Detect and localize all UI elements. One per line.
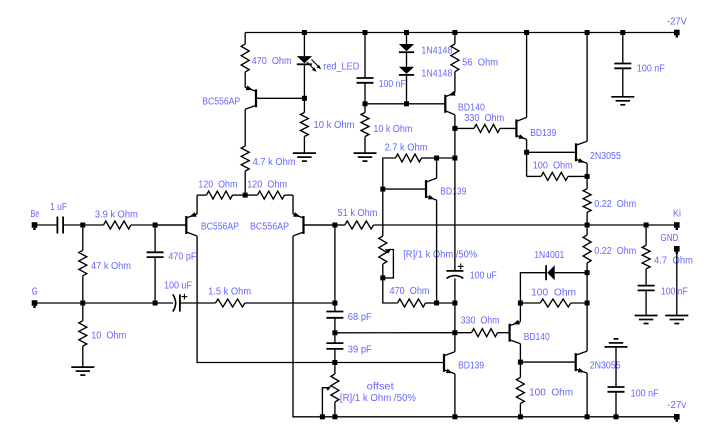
wire mid node to 39pF [334,333,336,343]
resistor R 0.22 Ohm (bottom) label [594,246,636,257]
junction (646,224) [644,223,649,228]
resistor R 100 Ohm (bottom) [516,378,524,404]
junction (454,332) [452,330,457,335]
wire node to 51k [335,224,345,226]
ground below 10k second [354,153,377,161]
junction (520,416) [518,414,523,419]
wire Q9c down to 100-4 [519,362,521,377]
wire 10 Ohm to ground [82,346,84,367]
plus sign of bias 100 uF [458,264,464,270]
wire 120L corner [197,194,206,196]
svg-text:BD139: BD139 [530,128,556,139]
junction (436,158) [434,156,439,161]
wire diode branch top [406,33,408,45]
resistor R 470 Ohm (bias) [398,299,426,307]
transistor Q9 BD140 (bottom) label [524,332,550,343]
resistor R 470 Ohm [241,44,249,72]
wire Q7 collector up [436,158,438,178]
wire LED branch top [303,33,305,57]
resistor R 51 k Ohm label [338,208,378,219]
junction (454,302) [452,301,457,306]
transistor Q2 BC556AP (diff left) label [201,222,239,233]
svg-text:56 Ohm: 56 Ohm [462,58,498,69]
transistor Q10 2N3055 (bottom) label [590,360,621,371]
ground below GND terminal [665,316,688,324]
wire Q8 collector up [454,333,456,352]
LED light arrows [307,59,321,72]
terminal pad -27V [674,30,680,38]
resistor R 10 Ohm [79,321,87,346]
resistor R 10 k Ohm (second) label [373,124,412,135]
resistor R 100 Ohm (bottom) label [529,387,573,398]
transistor Q9 BD140 (bottom) [510,320,521,344]
wire Q6 emitter down [586,163,588,176]
ground below 10 Ohm [71,367,94,375]
label 100 uF bias [470,271,497,282]
ground above 100nF bottom right (inverted) [605,339,628,347]
resistor R 0.22 Ohm (top) [583,189,591,213]
svg-text:2.7 k Ohm: 2.7 k Ohm [385,143,428,154]
wire 3.9k to node2 [131,224,155,226]
svg-text:100 nF: 100 nF [661,286,688,297]
wire Q2 collector down [197,236,335,363]
svg-text:G: G [32,286,38,297]
wire 470-2 to node [426,302,437,304]
wire Q7 emitter down [436,200,438,303]
wire 68pF to mid node [334,318,336,333]
capacitor C 100 nF (zobel) [638,286,655,291]
capacitor C 470 pF [147,252,164,257]
junction (364,103) [363,101,368,106]
resistor R 10 k Ohm (second) [361,113,369,137]
transistor Q3 BC556AP (diff right) label [250,222,289,233]
transistor Q1 BC556AP label [202,96,240,107]
svg-text:39 pF: 39 pF [348,344,372,355]
label -27v bottom [667,400,686,411]
junction (155,302) [153,301,158,306]
wire 56 Ohm top [454,33,456,45]
wire Q6 collector up [586,33,588,142]
resistor R 330 Ohm (top) label [464,113,504,124]
junction (334,224) [332,223,337,228]
junction (526,152) [524,150,529,155]
junction (82,302) [80,301,85,306]
junction (334,362) [332,360,337,365]
resistor R 100 Ohm (driver top) [541,172,568,180]
wire 100-3 left [520,302,540,304]
transistor Q2 BC556AP (diff left) [155,212,197,236]
diode D2 1N4148 label [421,68,452,79]
wire 454 node down [454,128,456,158]
resistor R 100 Ohm (driver top) label [533,161,573,172]
wire Q8 emitter down [454,374,456,417]
diode D3 1N4001 label [534,250,564,261]
junction (587,272) [585,270,590,275]
svg-text:BC556AP: BC556AP [202,96,240,107]
wire diode node to 100-3 node [586,273,588,303]
resistor R 100 Ohm (right mid) label [531,288,576,299]
wire 4.7k to tail node [244,171,246,195]
resistor R 0.22 Ohm (bottom) [583,235,591,263]
wire diode row right [555,272,587,274]
wire 1uF to node [63,224,83,226]
wire G pad to node [35,302,83,304]
wire between diodes [406,52,408,67]
wire 100nF-4 to bottom rail [615,392,617,417]
potentiometer bias [R]/1 k Ohm /50% [379,236,387,264]
svg-text:1N4001: 1N4001 [534,250,564,261]
resistor R 51 k Ohm [345,221,374,229]
junction (436,302) [434,301,439,306]
svg-text:Be: Be [30,209,39,220]
junction (82,224) [80,223,85,228]
transistor Q5 BD139 (top) [516,117,526,139]
svg-text:BD139: BD139 [458,361,484,372]
wire 51k to output rail [374,224,588,226]
svg-text:100 Ohm: 100 Ohm [533,161,573,172]
wire Q5 collector up [526,33,528,118]
wire 100uF to 1.5k [180,302,216,304]
wire Q5e to Q6 base [527,151,576,153]
wire 39pF to 361 line [334,349,336,363]
transistor Q7 BD139 (VAS top) label [440,187,466,198]
label 100 uF input [164,280,192,291]
wire bottom -27v rail [322,416,676,418]
junction (382,277) [380,275,385,280]
wire 470pF top [154,225,156,252]
capacitor C 1 uF label [50,202,67,213]
wire rail2 [365,103,445,105]
svg-text:10 Ohm: 10 Ohm [91,330,126,341]
junction (587,302) [585,301,590,306]
junction (622,32) [620,30,625,35]
svg-text:-27v: -27v [667,400,686,411]
junction (155,224) [153,223,158,228]
resistor R 10 k Ohm (left) label [314,120,355,131]
resistor R 56 Ohm label [462,58,498,69]
junction (454,158) [452,156,457,161]
label Be [30,209,39,220]
label G [32,286,38,297]
wire 100nF-3 to ground [645,290,647,315]
capacitor C 68 pF label [348,312,372,323]
wire 1.5k to feedback node [245,302,335,304]
wire fb base line crossing [382,189,384,236]
wire Q3 collector down [293,236,322,417]
svg-text:1N4148: 1N4148 [421,46,452,57]
junction (520,362) [518,360,523,365]
wire diode row left [520,273,546,303]
svg-text:470 Ohm: 470 Ohm [390,286,430,297]
label -27V top [667,17,687,28]
svg-text:120 Ohm: 120 Ohm [198,179,237,190]
wire 454 down to 330-2 node [454,303,456,333]
resistor R 2.7 k Ohm [396,154,422,162]
capacitor C 100 nF (top right) label [637,64,665,75]
svg-text:51 k Ohm: 51 k Ohm [338,208,378,219]
wire 100nF-1 top [364,33,366,79]
wire 100-3 right [571,302,587,304]
junction (406,103) [404,101,409,106]
ground below 10k left [293,153,316,161]
svg-text:68 pF: 68 pF [348,312,372,323]
resistor R 470 Ohm (bias) label [390,286,430,297]
wire 0.22-2 to diode node [586,263,588,273]
wire 47k to G line [82,276,84,303]
junction (526,32) [524,30,529,35]
wire Q5 emitter down [526,139,528,152]
wire node to 0.22-1 [586,176,588,188]
resistor R 0.22 Ohm (top) label [594,199,636,210]
svg-text:330 Ohm: 330 Ohm [461,316,500,327]
svg-text:330 Ohm: 330 Ohm [464,113,504,124]
junction (587,224) [585,223,590,228]
LED red_LED label [323,62,359,73]
wire zobel top [645,225,647,245]
resistor R 120 Ohm (left) label [198,179,237,190]
resistor R 4.7 Ohm (zobel) label [654,256,693,267]
wire 120R corner [285,194,294,196]
ground below 100nF top right [611,97,634,105]
wire G node to 470pF node [83,302,155,304]
wire out rail to 0.22-2 [586,225,588,235]
svg-text:10 k Ohm: 10 k Ohm [373,124,412,135]
wire 100nF-1 bottom [364,83,366,104]
wire 2.7k corner [383,158,396,189]
resistor R 56 Ohm [451,44,459,72]
junction (454,128) [452,126,457,131]
wire GND pad to ground [676,252,678,316]
wire node to 100uF node [437,302,455,304]
svg-text:100 Ohm: 100 Ohm [531,288,576,299]
wire 100nF-2 top [622,33,624,64]
wire node to 10k [303,98,305,112]
svg-text:[R]/1 k Ohm /50%: [R]/1 k Ohm /50% [403,250,477,261]
svg-text:0.22 Ohm: 0.22 Ohm [594,199,636,210]
capacitor C 100 nF (left) [357,78,374,83]
ground below zobel [635,316,658,324]
svg-text:BD140: BD140 [524,332,550,343]
capacitor C 100 uF (bias, polarized) [446,271,463,279]
junction (245,195) [243,193,248,198]
wire Q9 collector down [519,344,521,362]
wire 330-1 to Q5 base [500,127,516,129]
svg-text:1N4148: 1N4148 [421,68,452,79]
svg-text:100 uF: 100 uF [164,280,192,291]
wire fb node down to 68p [334,225,336,303]
svg-text:100 nF: 100 nF [637,64,665,75]
diode D3 1N4001 [546,265,555,280]
resistor R 47 k Ohm label [91,261,131,272]
wire Q2 emitter up [196,195,198,214]
transistor Q6 2N3055 (top) [576,141,587,163]
wire 454 to 100uF2 [454,158,456,271]
bias pot wiper [383,249,394,278]
svg-text:100 nF: 100 nF [379,79,406,90]
wire Q1 collector to 4.7k [244,109,246,146]
transistor Q7 BD139 (VAS top) [383,178,437,200]
wire Q10 collector up [586,303,588,351]
svg-text:100 uF: 100 uF [470,271,497,282]
wire output rail right [587,224,677,226]
wire 157 node link [437,157,455,159]
wire 10k to ground [303,137,305,154]
wire 10k-2 to ground [364,137,366,154]
wire Be to 1uF [35,224,58,226]
resistor R 4.7 k Ohm label [253,157,296,168]
label GND [660,233,678,244]
wire offset pot top [334,363,336,375]
svg-text:-27V: -27V [667,17,687,28]
wire 361 line to Q8 base [335,362,444,364]
svg-text:100 nF: 100 nF [631,389,659,400]
transistor Q6 2N3055 (top) label [590,151,621,162]
resistor R 3.9 k Ohm [104,221,131,229]
wire 0.22-1 to out rail [586,212,588,225]
junction (587,32) [585,30,590,35]
potentiometer offset [R]/1 k Ohm /50% [331,374,339,402]
wire node to 3.9k [83,224,104,226]
wire 332 node to 330-2 [455,332,472,334]
junction (454,416) [452,414,457,419]
resistor R 330 Ohm (bottom) label [461,316,500,327]
transistor Q3 BC556AP (diff right) [293,212,335,236]
terminal pad GND [674,246,680,254]
svg-text:3.9 k Ohm: 3.9 k Ohm [95,209,138,220]
resistor R 47 k Ohm [79,250,87,275]
capacitor C 1 uF [57,217,63,234]
junction (520,302) [518,301,523,306]
wire bias pot node down [383,278,398,303]
wire 4.7 to 100nF-3 [645,269,647,286]
capacitor C 100 nF (bottom right) label [631,389,659,400]
capacitor C 100 nF (left) label [379,79,406,90]
svg-text:4.7 Ohm: 4.7 Ohm [654,256,693,267]
junction (334,332) [332,330,337,335]
wire Q3 emitter up [292,195,294,214]
resistor R 4.7 k Ohm [241,146,249,171]
LED red_LED [297,56,312,64]
wire 330-2 to Q9 base [498,332,510,334]
svg-text:470 pF: 470 pF [168,251,196,262]
junction (616,416) [614,414,619,419]
junction (334,302) [332,301,337,306]
resistor R 3.9 k Ohm label [95,209,138,220]
transistor Q8 BD139 (VAS bottom) [444,352,455,374]
capacitor C 100 nF (top right) [614,64,631,69]
svg-text:1 uF: 1 uF [50,202,67,213]
wire 470 Ohm to Q1 emitter [244,72,246,88]
svg-text:[R]/1 k Ohm /50%: [R]/1 k Ohm /50% [340,393,416,404]
resistor R 1.5 k Ohm label [208,287,251,298]
capacitor C 100 nF (zobel) label [661,286,688,297]
svg-text:BC556AP: BC556AP [201,222,239,233]
svg-text:120 Ohm: 120 Ohm [247,179,287,190]
junction (304,98) [302,96,307,101]
terminal pad -27v [674,414,680,422]
diode D1 1N4148 [399,44,414,52]
wire LED to Q1 base node [303,65,305,98]
svg-text:10 k Ohm: 10 k Ohm [314,120,355,131]
resistor R 1.5 k Ohm [216,299,245,307]
resistor R 2.7 k Ohm label [385,143,428,154]
svg-text:47 k Ohm: 47 k Ohm [91,261,131,272]
junction (322,416) [320,414,325,419]
svg-text:BD140: BD140 [458,102,485,113]
wire tail to 120R [245,194,257,196]
transistor Q8 BD139 (VAS bottom) label [458,361,484,372]
svg-text:red_LED: red_LED [323,62,359,73]
resistor R 10 k Ohm (left) [300,113,308,137]
resistor R 120 Ohm (left) [207,191,233,199]
label Ki [673,209,681,220]
wire top -27V rail [245,32,677,34]
wire inv ground to 100nF-4 [615,347,617,387]
resistor R 10 Ohm label [91,330,126,341]
terminal pad G [32,300,38,308]
wire fbnode to 68pF [334,303,336,312]
transistor Q1 BC556AP [245,85,304,109]
junction (334,416) [332,414,337,419]
wire G to 100uF [155,302,173,304]
resistor R 120 Ohm (right) label [247,179,287,190]
svg-text:offset: offset [367,382,394,393]
wire offset pot bottom [334,402,336,417]
plus sign of input 100 uF [182,294,188,300]
svg-text:BD139: BD139 [440,187,466,198]
wire 100-1 to node [568,175,587,177]
wire Q4 collector down [454,115,456,129]
resistor R 100 Ohm (right mid) [540,299,571,307]
wire bias pot bottom [382,264,384,278]
diode D2 1N4148 [399,67,414,75]
transistor Q4 BD140 [445,91,455,115]
label bias pot value [403,250,477,261]
svg-text:4.7 k Ohm: 4.7 k Ohm [253,157,296,168]
label offset [367,382,394,393]
resistor R 470 Ohm label [252,56,292,67]
svg-text:BC556AP: BC556AP [250,222,289,233]
capacitor C 39 pF [326,343,343,349]
capacitor C 470 pF label [168,251,196,262]
junction (587,416) [585,414,590,419]
transistor Q4 BD140 label [458,102,485,113]
resistor R 120 Ohm (right) [258,191,285,199]
wire Q5e stub to 100-1 [527,175,541,177]
wire 470 Ohm branch top [244,33,246,45]
junction (406,32) [404,30,409,35]
offset pot wiper [322,386,331,417]
wire Q9c to Q10 base [520,361,575,363]
capacitor C 100 nF (bottom right) [608,387,625,392]
label offset pot value [340,393,416,404]
junction (382,189) [380,187,385,192]
svg-text:1.5 k Ohm: 1.5 k Ohm [208,287,251,298]
svg-text:0.22 Ohm: 0.22 Ohm [594,246,636,257]
wire Q5e down to 100-1 [526,152,528,176]
resistor R 4.7 Ohm (zobel) [642,245,650,268]
junction (304,32) [302,30,307,35]
capacitor C 100 uF (input, polarized) [173,294,180,311]
terminal pad Ki [674,222,680,230]
wire 56 Ohm to Q4 emitter [454,72,456,93]
wire node down to 47k [82,225,84,250]
wire Q10 emitter down [586,373,588,417]
transistor Q10 2N3055 (bottom) [576,351,587,373]
terminal pad Be [32,222,38,230]
capacitor C 39 pF label [348,344,372,355]
junction (364,32) [363,30,368,35]
